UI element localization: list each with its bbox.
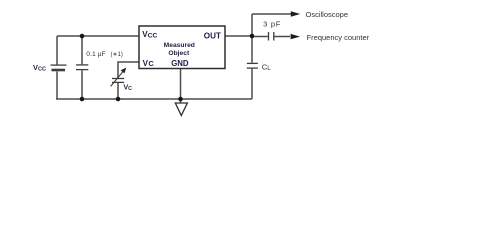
svg-text:Frequency counter: Frequency counter [307, 33, 370, 42]
svg-text:Object: Object [168, 50, 190, 57]
svg-text:VC: VC [143, 59, 155, 68]
svg-text:Measured: Measured [164, 42, 195, 49]
svg-text:(∗1): (∗1) [111, 52, 123, 58]
svg-text:VC: VC [124, 84, 133, 92]
svg-text:GND: GND [171, 59, 189, 68]
svg-text:CL: CL [262, 62, 271, 72]
svg-text:OUT: OUT [204, 32, 221, 41]
svg-text:0.1 µF: 0.1 µF [86, 51, 105, 58]
svg-text:Oscilloscope: Oscilloscope [306, 10, 349, 19]
svg-text:VCC: VCC [142, 30, 157, 39]
svg-text:3 pF: 3 pF [263, 20, 281, 29]
svg-text:VCC: VCC [33, 63, 46, 73]
